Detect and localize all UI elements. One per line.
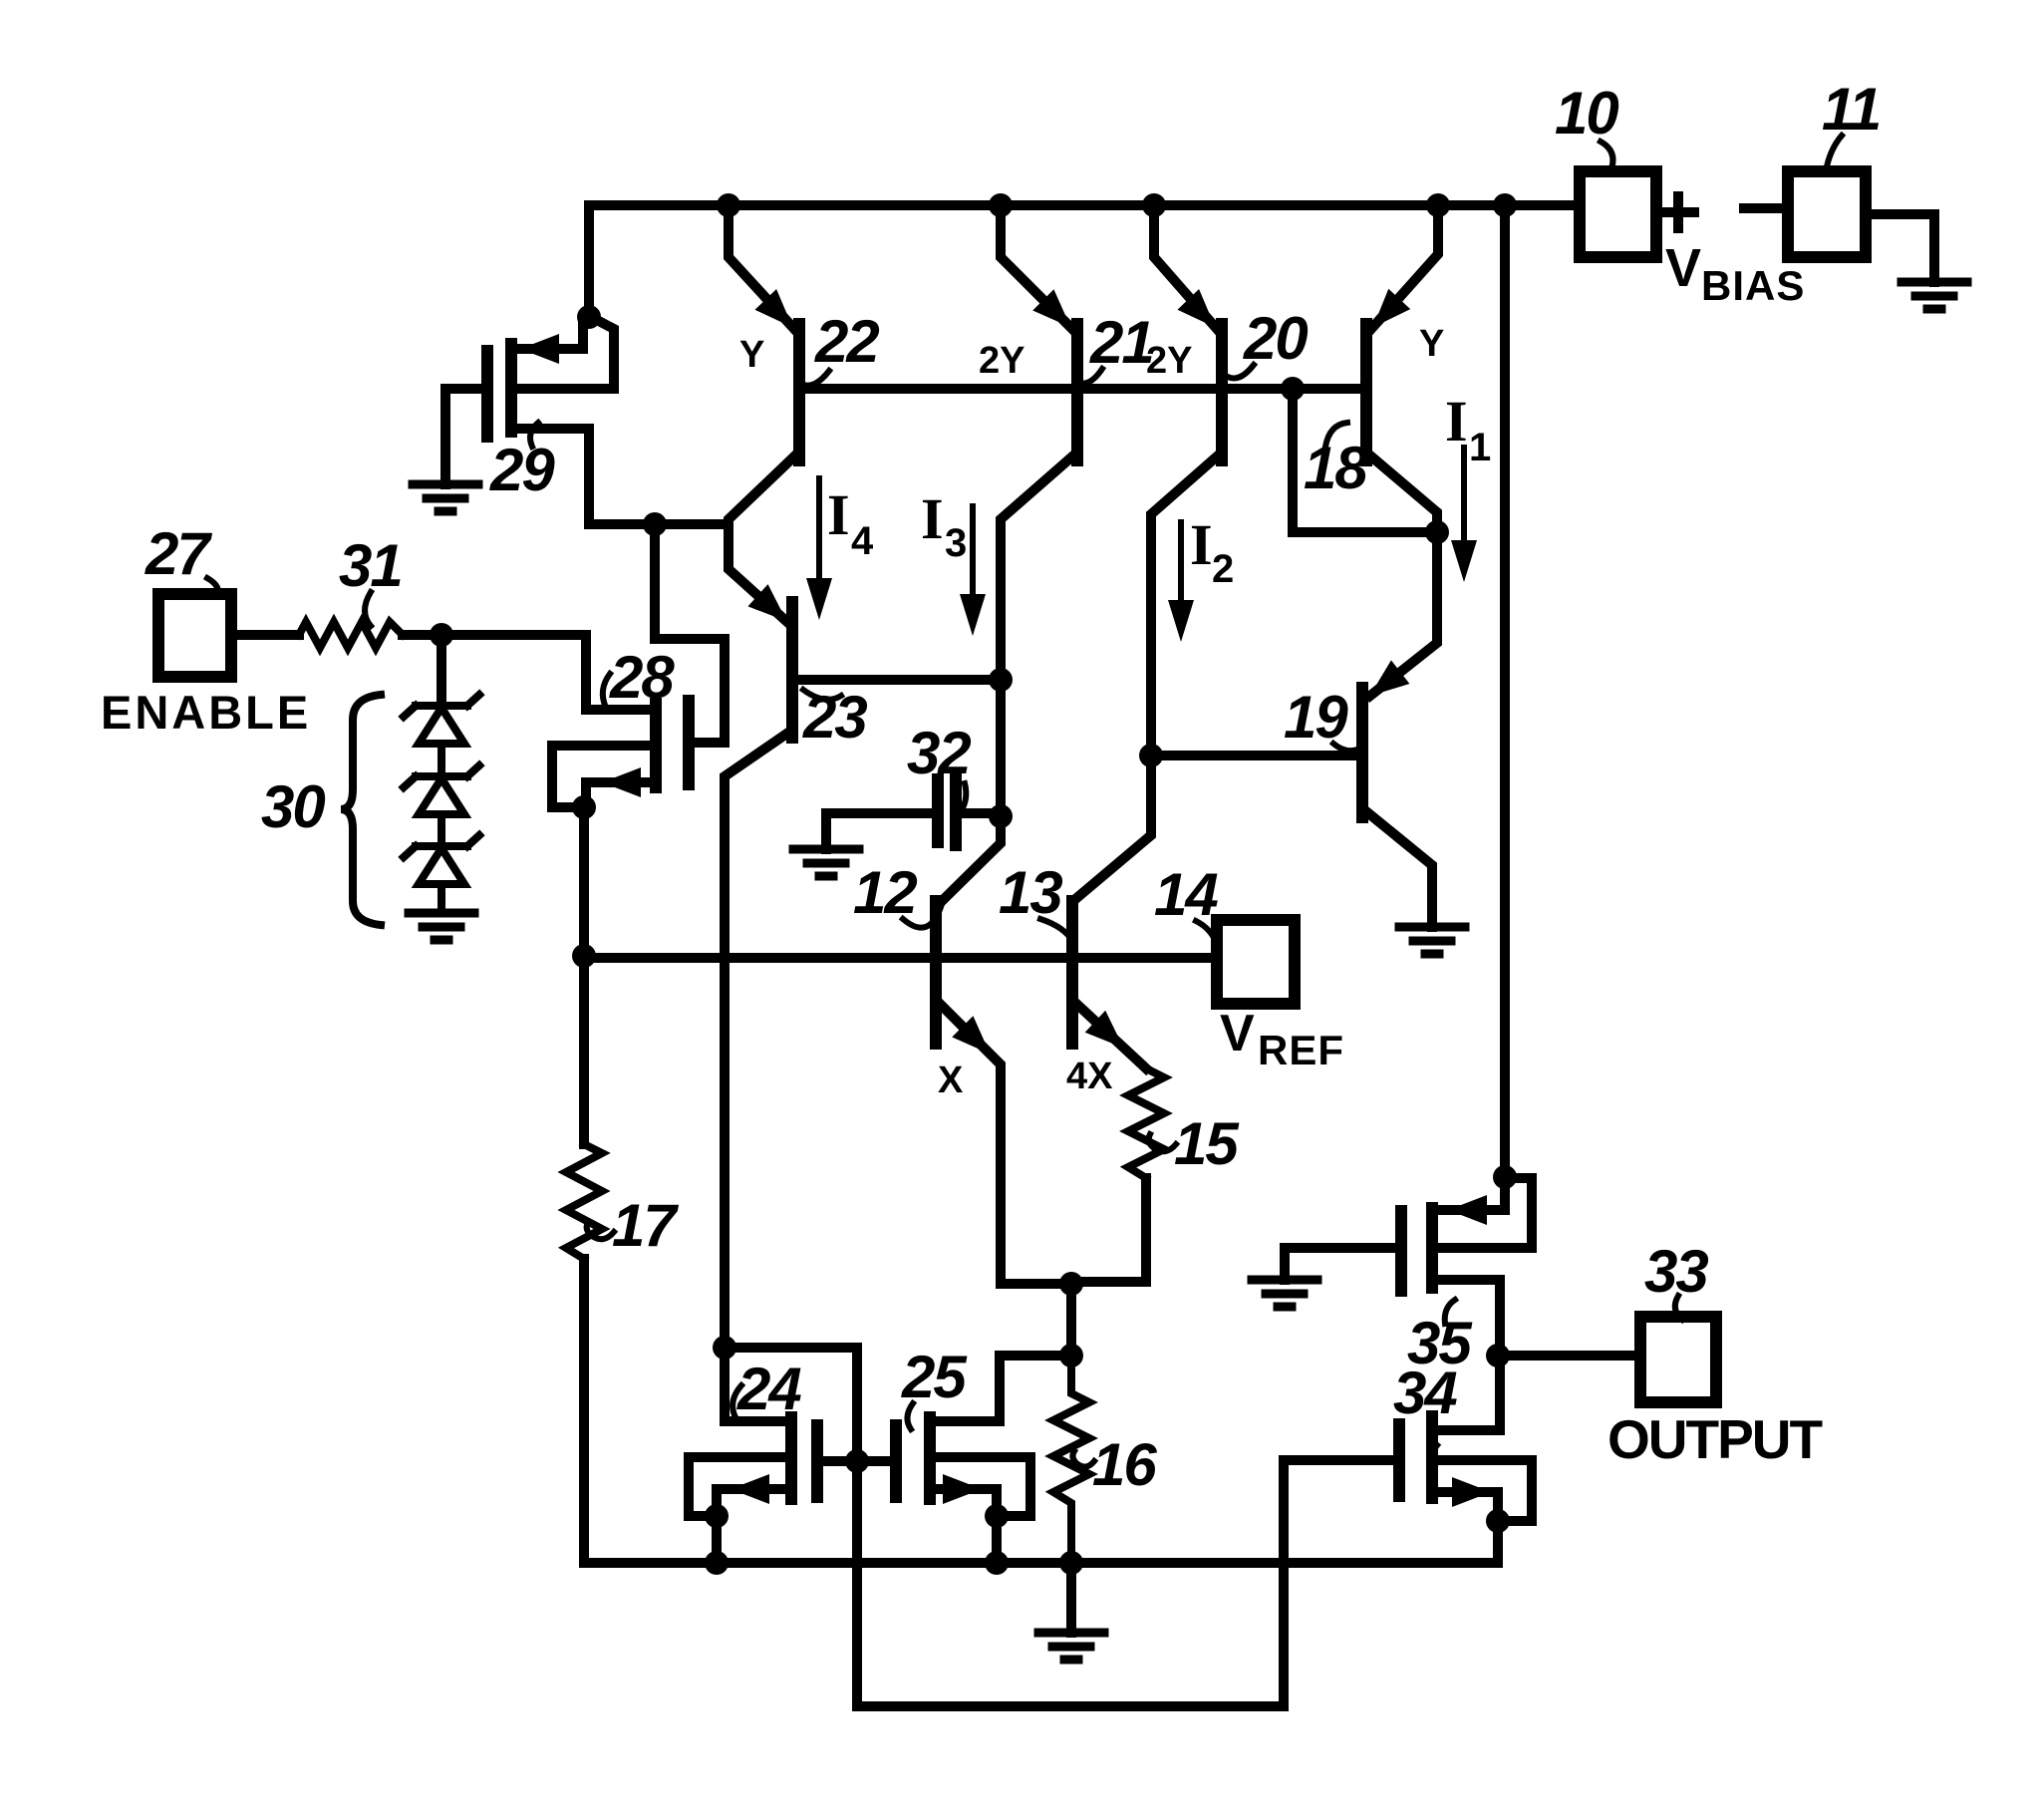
node dot on rail above Q21: [989, 193, 1013, 217]
transistor Q23 emitter: [729, 524, 788, 623]
mosfet M24 bulk contact: [689, 1457, 787, 1516]
mosfet M28 source contact with arrow: [586, 782, 652, 807]
transistor Q20 collector: [1074, 456, 1217, 900]
mosfet M29 gate bar: [481, 351, 493, 437]
transistor Q21 base bar: [1071, 324, 1083, 460]
leader squiggle for 17: [587, 1222, 614, 1239]
mosfet M29 gate wire to ground: [445, 389, 481, 484]
svg-text:1: 1: [1469, 426, 1491, 469]
wire M28 source chain down to VREF bus node: [579, 807, 589, 956]
wire VREF base bus: [584, 953, 1217, 963]
wire R15 down to emitter junction: [1071, 1178, 1146, 1282]
wire D1 to D2: [438, 744, 445, 776]
node below M24 source: [705, 1504, 729, 1528]
ground at bottom center: [1038, 1633, 1104, 1660]
transistor Q19 collector to ground: [1367, 812, 1432, 927]
capacitor C32 left plate: [932, 779, 944, 842]
leader for 31: [365, 592, 371, 626]
leader for 27: [207, 578, 218, 596]
svg-text:22: 22: [814, 308, 879, 375]
svg-text:V: V: [1220, 1005, 1255, 1062]
current arrow I1: [1461, 448, 1467, 543]
transistor Q19 base wire: [1151, 751, 1358, 760]
mosfet M29 drain line: [515, 429, 589, 524]
box 10 (V_BIAS + terminal): [1580, 171, 1656, 257]
leader squiggle for 16: [1072, 1451, 1094, 1467]
bottom rail wire: [584, 1558, 1498, 1568]
node at Q18 collector: [1425, 520, 1449, 544]
svg-text:4X: 4X: [1066, 1056, 1113, 1097]
mosfet M29 source+bulk node dot: [577, 305, 601, 329]
transistor Q18 emitter: [1371, 205, 1438, 329]
wire C32 left plate to ground: [826, 813, 933, 849]
leader for 22: [803, 371, 829, 386]
wire R16 node to ground: [1066, 1563, 1076, 1633]
transistor Q13 emitter with arrow: [1074, 1002, 1146, 1068]
node on base bus: [1281, 377, 1305, 401]
node emitter junction: [1059, 1272, 1083, 1296]
mosfet M24 source contact with arrow: [717, 1489, 787, 1516]
capacitor C32 right plate: [950, 777, 962, 845]
leader for 10: [1601, 142, 1612, 171]
leader for 35: [1445, 1300, 1455, 1324]
mosfet M34 channel bar: [1426, 1416, 1438, 1498]
node at VREF bus left: [572, 944, 596, 968]
leader for 34: [1429, 1419, 1437, 1445]
box 27 (ENABLE terminal): [158, 594, 231, 677]
wire node A to M29 drain and Q22 collector: [589, 519, 729, 529]
transistor Q20 emitter: [1154, 205, 1217, 329]
mosfet M35 gate wire: [1285, 1248, 1397, 1280]
svg-text:2: 2: [1212, 547, 1234, 591]
svg-text:25: 25: [901, 1344, 968, 1410]
mosfet M35 channel bar: [1426, 1208, 1438, 1288]
resistor R16: [1053, 1356, 1089, 1563]
leader for 33: [1675, 1296, 1682, 1320]
svg-text:OUTPUT: OUTPUT: [1607, 1408, 1823, 1470]
svg-text:I: I: [1190, 512, 1213, 577]
transistor Q12 base bar: [930, 901, 942, 1044]
svg-text:Y: Y: [739, 334, 764, 376]
box 14 (VREF terminal): [1217, 920, 1295, 1004]
svg-text:ENABLE: ENABLE: [101, 686, 311, 739]
current arrow I2: [1178, 522, 1184, 600]
box 11 (V_BIAS - terminal): [1788, 171, 1866, 257]
wire top supply rail: [589, 205, 1580, 317]
wire base bus node down to Q18 collector: [1293, 389, 1437, 532]
transistor Q22 collector: [729, 456, 794, 524]
leader for 11: [1826, 136, 1842, 171]
leader for 32: [961, 783, 966, 811]
node at Q23 base and Q21 collector: [989, 668, 1013, 692]
node at Q19 base on I2 line: [1139, 744, 1163, 767]
node at M35 source and right vertical: [1493, 1165, 1517, 1189]
transistor Q23 base wire: [797, 675, 1001, 685]
mosfet M34 gate bar: [1393, 1424, 1405, 1496]
transistor Q22 base bar: [793, 324, 805, 460]
wire M24 drain node to gate bus vertical: [725, 1348, 1395, 1706]
ground at Q19: [1399, 927, 1465, 954]
node dot on rail above Q22: [717, 193, 740, 217]
node dot on rail at right vertical: [1493, 193, 1517, 217]
ground at C32: [793, 849, 859, 876]
brace for 30: [341, 695, 381, 925]
leader for 21: [1078, 369, 1102, 384]
svg-text:24: 24: [736, 1356, 801, 1422]
node below M25 source: [985, 1504, 1009, 1528]
transistor Q21 collector: [940, 456, 1072, 903]
mosfet M24 gate wire: [821, 1456, 857, 1466]
svg-text:12: 12: [853, 859, 917, 926]
plus sign: [1662, 196, 1694, 228]
transistor Q22 emitter: [729, 205, 794, 329]
svg-text:4: 4: [851, 519, 874, 563]
ground at box 11: [1901, 282, 1967, 309]
wire M25 source to bottom rail: [992, 1516, 1002, 1563]
svg-text:I: I: [827, 482, 850, 547]
leader for 29: [530, 423, 538, 447]
resistor R17: [566, 1144, 602, 1259]
node at C32 and Q21 collector line: [989, 804, 1013, 828]
leader for 20: [1228, 365, 1254, 379]
svg-text:32: 32: [907, 720, 971, 786]
leader for 18: [1325, 423, 1347, 447]
leader for 13: [1040, 919, 1072, 941]
svg-text:17: 17: [612, 1192, 679, 1259]
node at M25 drain and R16: [1059, 1344, 1083, 1367]
svg-text:3: 3: [945, 521, 967, 565]
minus sign: [1744, 203, 1782, 213]
node A dot: [643, 512, 667, 536]
mosfet M25 bulk contact: [934, 1457, 1030, 1516]
mosfet M24 gate bar: [811, 1425, 823, 1497]
svg-text:27: 27: [145, 520, 212, 587]
wire C32 right plate to node: [961, 808, 1001, 818]
wire node down to resistor 17: [579, 956, 589, 1144]
leader for 28: [603, 674, 610, 708]
mosfet M28 gate bar: [683, 701, 695, 784]
svg-text:30: 30: [261, 773, 325, 840]
svg-text:10: 10: [1555, 80, 1618, 147]
leader squiggle for 15: [1149, 1134, 1176, 1151]
mosfet M24 channel bar: [785, 1417, 797, 1499]
wire R17 down to bottom rail: [579, 1259, 589, 1563]
svg-text:BIAS: BIAS: [1701, 262, 1805, 309]
transistor Q21 emitter: [1001, 205, 1072, 329]
zener diode D1 of stack 30: [404, 695, 479, 744]
node dot on rail above Q18: [1426, 193, 1450, 217]
ground at M29 gate: [413, 484, 478, 511]
svg-text:REF: REF: [1258, 1027, 1344, 1073]
svg-text:V: V: [1665, 238, 1701, 298]
mosfet M28 drain contact: [586, 705, 650, 715]
wire box11 to ground: [1866, 214, 1934, 282]
node at Q23 collector and M24 drain: [713, 1336, 736, 1360]
node dot on rail above Q20: [1142, 193, 1166, 217]
wire ENABLE node down to diode stack: [437, 635, 446, 704]
svg-text:34: 34: [1393, 1360, 1457, 1426]
mosfet M35 source contact with arrow: [1436, 1181, 1505, 1210]
svg-text:2Y: 2Y: [979, 340, 1024, 382]
leader for 19: [1333, 744, 1357, 751]
zener diode D3 of stack 30: [404, 835, 479, 884]
transistor Q18 collector down to Q19 emitter: [1370, 456, 1437, 696]
svg-text:I: I: [921, 486, 944, 551]
mosfet M25 source contact with arrow: [934, 1489, 997, 1516]
svg-text:13: 13: [999, 859, 1062, 926]
wire M24 source to bottom rail: [712, 1516, 722, 1563]
transistor Q19 base bar: [1356, 688, 1368, 817]
leader for 23: [803, 690, 841, 700]
ground at M35 gate: [1252, 1280, 1317, 1307]
wire resistor 31 to node: [403, 630, 441, 640]
wire M34 source to bottom rail: [1493, 1521, 1503, 1563]
mosfet M34 drain contact up to output node: [1436, 1356, 1500, 1430]
svg-text:28: 28: [609, 644, 675, 711]
mosfet M24 drain contact: [725, 1416, 787, 1426]
transistor Q12 emitter with arrow: [938, 1002, 1071, 1284]
current arrow I4: [816, 478, 822, 578]
mosfet M35 gate bar: [1395, 1211, 1407, 1291]
svg-text:2Y: 2Y: [1146, 340, 1192, 382]
mosfet M28 channel bar: [650, 704, 662, 787]
node below M34 source: [1486, 1509, 1510, 1533]
mosfet M34 bulk contact: [1436, 1460, 1532, 1521]
mosfet M28 gate wire from node A: [655, 524, 725, 743]
resistor R15: [1128, 1068, 1164, 1178]
transistor Q23 collector long drop to M24: [725, 733, 788, 1421]
ground at diode stack: [409, 913, 474, 940]
mosfet M29 source line with arrow: [515, 321, 583, 349]
mosfet M34 source contact with arrow: [1436, 1492, 1498, 1521]
svg-text:21: 21: [1089, 309, 1153, 376]
node rail at M25 source: [985, 1551, 1009, 1575]
mosfet M35 bulk contact: [1436, 1178, 1532, 1248]
leader for 24: [732, 1385, 741, 1417]
mosfet M29 bulk line: [515, 318, 614, 389]
node at M24/M25 gates: [845, 1449, 869, 1473]
svg-text:I: I: [1445, 389, 1468, 454]
transistor Q18 base bar: [1360, 324, 1372, 460]
wire D2 to D3: [438, 814, 445, 846]
mosfet M29 channel bar: [505, 344, 517, 432]
node at ENABLE net: [430, 623, 453, 647]
svg-text:16: 16: [1092, 1431, 1157, 1498]
wire output node to box 33: [1498, 1351, 1640, 1361]
wire emitter junction down to M25 drain node: [1066, 1284, 1076, 1356]
wire box 27 to resistor 31: [231, 630, 299, 640]
node rail at R16: [1059, 1551, 1083, 1575]
svg-text:19: 19: [1284, 684, 1348, 751]
svg-text:18: 18: [1304, 435, 1368, 501]
svg-text:15: 15: [1174, 1110, 1240, 1177]
node rail at M24 source: [705, 1551, 729, 1575]
svg-text:14: 14: [1154, 861, 1218, 928]
wire ENABLE node to M28 drain: [441, 635, 586, 710]
svg-text:Y: Y: [1419, 323, 1444, 365]
node below M28 source: [572, 795, 596, 819]
svg-text:X: X: [938, 1060, 964, 1101]
leader for 14: [1196, 921, 1217, 945]
current arrow I3: [970, 506, 976, 594]
mosfet M25 drain contact up to node: [934, 1356, 1071, 1421]
leader for 12: [903, 907, 941, 928]
box 33 (OUTPUT terminal): [1640, 1317, 1716, 1402]
wire D3 to ground: [438, 884, 445, 913]
svg-text:11: 11: [1822, 76, 1880, 143]
zener diode D2 of stack 30: [404, 765, 479, 814]
common base bus wire: [799, 384, 1366, 394]
wire right vertical from rail to M35: [1500, 205, 1510, 1177]
mosfet M35 drain contact down to output: [1436, 1280, 1500, 1356]
leader for 25: [907, 1403, 913, 1429]
mosfet M25 channel bar: [924, 1417, 936, 1499]
mosfet M28 bulk contact: [552, 746, 652, 807]
transistor Q13 base bar: [1066, 901, 1078, 1044]
output node dot: [1486, 1344, 1510, 1367]
transistor Q23 base bar: [786, 602, 798, 738]
mosfet M25 gate bar: [890, 1425, 902, 1497]
mosfet M25 gate wire: [857, 1456, 892, 1466]
svg-text:29: 29: [489, 437, 555, 503]
resistor R31: [299, 622, 403, 648]
transistor Q20 base bar: [1216, 324, 1228, 460]
